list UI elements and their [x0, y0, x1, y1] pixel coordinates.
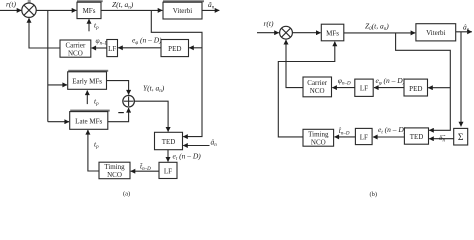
wire a_n hat branch down to Sigma (b)	[460, 32, 462, 127]
artifact gray stub above mixer (a)	[28, 0, 31, 3]
block Late MFs (a)	[70, 112, 108, 130]
svg-text:LF: LF	[360, 134, 368, 142]
svg-text:φn–D: φn–D	[338, 76, 351, 87]
wire LF to Timing NCO (b)	[335, 136, 356, 138]
svg-text:tp: tp	[94, 21, 99, 32]
wire Carrier NCO feedback to mixer (b)	[286, 40, 303, 88]
svg-text:ân: ân	[208, 0, 215, 11]
svg-text:Carrier: Carrier	[65, 41, 85, 49]
block Carrier NCO (b)	[303, 77, 332, 97]
wire mixer to MFs (b)	[293, 32, 321, 34]
wire Timing NCO feedback to MFs (b)	[278, 42, 335, 137]
svg-text:NCO: NCO	[311, 138, 326, 146]
wire branch into Late MFs (a)	[48, 121, 69, 123]
svg-text:(b): (b)	[370, 191, 378, 198]
block Timing NCO (b)	[303, 129, 334, 146]
block LF timing loop (b)	[355, 128, 372, 144]
svg-text:r(t): r(t)	[6, 0, 17, 9]
svg-text:δ̂n: δ̂n	[439, 133, 446, 144]
wire LF to Carrier NCO (b)	[332, 87, 355, 89]
wire branch junction down to Early/Late MFs (a)	[47, 10, 49, 121]
wire Z branch into PED (a)	[189, 47, 202, 49]
block MFs (a)	[77, 2, 101, 18]
svg-text:t̂n–D: t̂n–D	[140, 161, 151, 172]
svg-text:Late MFs: Late MFs	[75, 118, 102, 126]
svg-text:Timing: Timing	[308, 131, 329, 139]
svg-text:Carrier: Carrier	[307, 79, 327, 87]
svg-text:NCO: NCO	[107, 171, 122, 179]
block LF timing loop (a)	[159, 162, 177, 178]
block Early MFs (a)	[68, 72, 107, 90]
wire MFs to Viterbi (b)	[344, 32, 415, 34]
wire summer output to TED (a)	[134, 101, 168, 131]
svg-text:ân: ân	[211, 137, 218, 148]
svg-text:(a): (a)	[123, 190, 130, 197]
svg-text:TED: TED	[162, 138, 176, 146]
wire Late MFs output to summer (a)	[108, 108, 129, 122]
wire Z_0 branch into PED (b)	[428, 87, 450, 89]
svg-text:Z(t, an): Z(t, an)	[112, 0, 134, 11]
wire branch into Early MFs (a)	[48, 84, 67, 86]
wire Early MFs output to summer (a)	[107, 81, 129, 95]
block TED (b)	[404, 128, 428, 144]
svg-text:LF: LF	[360, 85, 368, 93]
wire Viterbi output arrow (b)	[456, 31, 472, 33]
wire LF to Carrier NCO (a)	[92, 47, 107, 49]
block Viterbi (b)	[416, 24, 456, 41]
wire Carrier NCO feedback to mixer (a)	[29, 18, 60, 48]
svg-text:eφ (n – D): eφ (n – D)	[132, 36, 162, 47]
svg-text:Viterbi: Viterbi	[173, 7, 192, 15]
svg-text:TED: TED	[410, 133, 424, 141]
wire Timing NCO t_p feedback to Late MFs (a)	[88, 130, 99, 171]
svg-text:t̂n–D: t̂n–D	[338, 125, 349, 136]
svg-text:r(t): r(t)	[264, 19, 275, 28]
block TED (a)	[155, 132, 183, 149]
block Carrier NCO (a)	[60, 40, 91, 57]
block LF carrier loop (a)	[107, 40, 118, 57]
wire TED to LF (b)	[373, 136, 404, 138]
wire Viterbi output arrow (a)	[202, 9, 219, 11]
block Late MFs (a) shadow	[70, 110, 110, 112]
wire mixer to MFs (a)	[36, 9, 76, 11]
wire t_p stub into Early MFs (a)	[86, 91, 88, 105]
svg-text:MFs: MFs	[326, 30, 339, 38]
block MFs (b)	[321, 24, 344, 41]
block PED (a)	[161, 40, 189, 57]
block Viterbi (a)	[163, 2, 202, 19]
block LF carrier loop (b)	[355, 79, 373, 96]
wire a_n hat into TED (a)	[183, 145, 209, 147]
label minus sign at summer (a)	[118, 112, 124, 114]
svg-text:LF: LF	[164, 168, 172, 176]
block Sigma accumulator (b)	[454, 128, 468, 145]
svg-text:et (n – D): et (n – D)	[173, 152, 202, 163]
svg-text:PED: PED	[168, 45, 181, 53]
svg-text:MFs: MFs	[83, 7, 96, 15]
block Viterbi (a) shadow	[163, 0, 204, 2]
wire PED to LF (b)	[374, 87, 404, 89]
svg-text:Timing: Timing	[104, 163, 125, 171]
wire TED to LF timing (a)	[167, 150, 169, 162]
multiplier mixer X2 (b)	[280, 26, 293, 39]
svg-text:et (n – D): et (n – D)	[378, 125, 407, 136]
multiplier mixer X1 (a)	[22, 3, 36, 17]
wire r(t) input to mixer (a)	[0, 9, 21, 11]
block Early MFs (a) shadow	[68, 70, 108, 72]
svg-text:tp: tp	[94, 96, 99, 107]
wire PED to LF (a)	[118, 47, 161, 49]
wire Sigma to TED (b)	[429, 138, 454, 140]
svg-text:Early MFs: Early MFs	[72, 78, 102, 86]
wire LF to Timing NCO (a)	[131, 170, 159, 172]
block MFs (a) shadow	[77, 0, 103, 2]
svg-text:tp: tp	[94, 140, 99, 151]
block Timing NCO (a)	[99, 162, 130, 179]
block PED (b)	[404, 79, 428, 96]
wire r(t) input to mixer (b)	[257, 32, 279, 34]
wire t_p stub into MFs (a)	[88, 19, 90, 31]
svg-text:NCO: NCO	[68, 49, 83, 57]
svg-text:NCO: NCO	[310, 87, 325, 95]
svg-text:Y(t, an): Y(t, an)	[143, 84, 165, 95]
wire MFs to Viterbi (a)	[101, 9, 162, 11]
svg-text:Viterbi: Viterbi	[426, 29, 445, 37]
wire Z branch down-right to PED/TED (a)	[151, 10, 202, 136]
summer node (a)	[123, 95, 135, 107]
svg-text:LF: LF	[108, 45, 116, 53]
svg-text:Σ: Σ	[458, 133, 464, 143]
svg-text:Z0(t, an): Z0(t, an)	[365, 21, 389, 32]
svg-text:ân: ân	[463, 22, 470, 33]
svg-text:PED: PED	[409, 85, 422, 93]
wire Z_0 branch down-right to PED/TED (b)	[396, 33, 451, 130]
svg-text:eφ (n – D): eφ (n – D)	[376, 76, 406, 87]
